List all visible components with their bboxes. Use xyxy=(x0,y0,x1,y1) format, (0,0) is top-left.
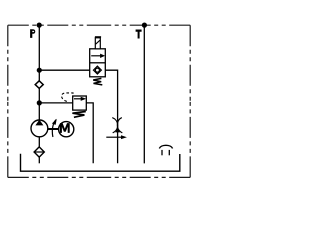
solenoid valve check position (diamond with seat circle) xyxy=(94,66,102,74)
relief valve spring xyxy=(72,112,85,118)
throttle flow-direction arrowhead (up) xyxy=(115,128,120,132)
wire relief valve drain to tank xyxy=(86,103,93,163)
wire pump suction xyxy=(38,137,40,148)
relief valve flow arrow xyxy=(74,98,81,100)
breather (air filter on tank) xyxy=(159,145,172,148)
wire P vertical (P port down to pump) xyxy=(38,25,40,120)
shaft rotation arc xyxy=(52,120,56,137)
enclosure border (dash-dot power unit boundary) xyxy=(8,25,190,177)
solenoid manual override cap xyxy=(95,36,101,38)
orifice (diamond in P line) xyxy=(35,81,43,89)
port T label xyxy=(136,30,142,39)
solenoid valve return spring xyxy=(93,78,102,85)
wire P branch to solenoid valve xyxy=(39,69,89,71)
throttle adjustment arrow (horizontal) xyxy=(106,136,121,138)
relief valve body xyxy=(73,96,87,110)
solenoid coil xyxy=(95,38,100,49)
suction filter (diamond with screen line) xyxy=(34,147,44,157)
port P label xyxy=(30,29,35,38)
pump xyxy=(31,120,48,137)
solenoid valve body (2-position) xyxy=(90,49,106,77)
node P branch to valve xyxy=(37,68,42,73)
solenoid valve flow arrow xyxy=(91,55,100,57)
relief valve pilot line (dashed hook) xyxy=(62,93,73,102)
node T junction xyxy=(142,23,147,28)
pump-motor shaft xyxy=(48,128,59,130)
wire T return line xyxy=(143,25,145,163)
node P branch to relief valve xyxy=(37,100,42,105)
pump outlet triangle xyxy=(35,120,43,126)
wire P branch to relief valve xyxy=(39,102,72,104)
node P junction xyxy=(37,23,42,28)
motor M xyxy=(59,122,74,137)
tank (reservoir) xyxy=(21,154,180,172)
wire filter into tank xyxy=(38,157,40,163)
wire valve outlet to throttle line xyxy=(105,70,117,163)
throttle valve arcs xyxy=(112,118,117,133)
